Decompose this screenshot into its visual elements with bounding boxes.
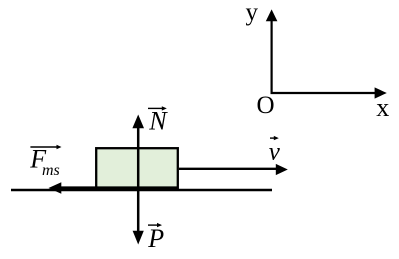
svg-text:y: y [246, 0, 259, 26]
weight force label P with vector arrow [147, 223, 164, 253]
y-axis [266, 9, 278, 94]
friction force arrow F_ms [49, 182, 179, 193]
velocity label v with vector arrow [269, 136, 281, 166]
x-axis [271, 87, 387, 98]
svg-text:x: x [376, 93, 389, 122]
y-axis label y [246, 0, 259, 26]
velocity arrow v [179, 164, 288, 175]
ground line [11, 189, 272, 192]
svg-text:O: O [257, 92, 275, 119]
block [96, 148, 178, 189]
friction force label F_ms with vector arrow [29, 145, 61, 180]
svg-text:P: P [147, 224, 164, 253]
svg-text:ms: ms [42, 162, 60, 179]
svg-text:v: v [269, 139, 281, 166]
weight force arrow P (arrowhead) [133, 231, 144, 245]
svg-text:N: N [148, 106, 168, 135]
normal force arrow N (shaft shared with P) [132, 115, 144, 232]
origin label O [257, 92, 275, 119]
x-axis label x [376, 93, 389, 122]
normal force label N with vector arrow [148, 106, 168, 135]
